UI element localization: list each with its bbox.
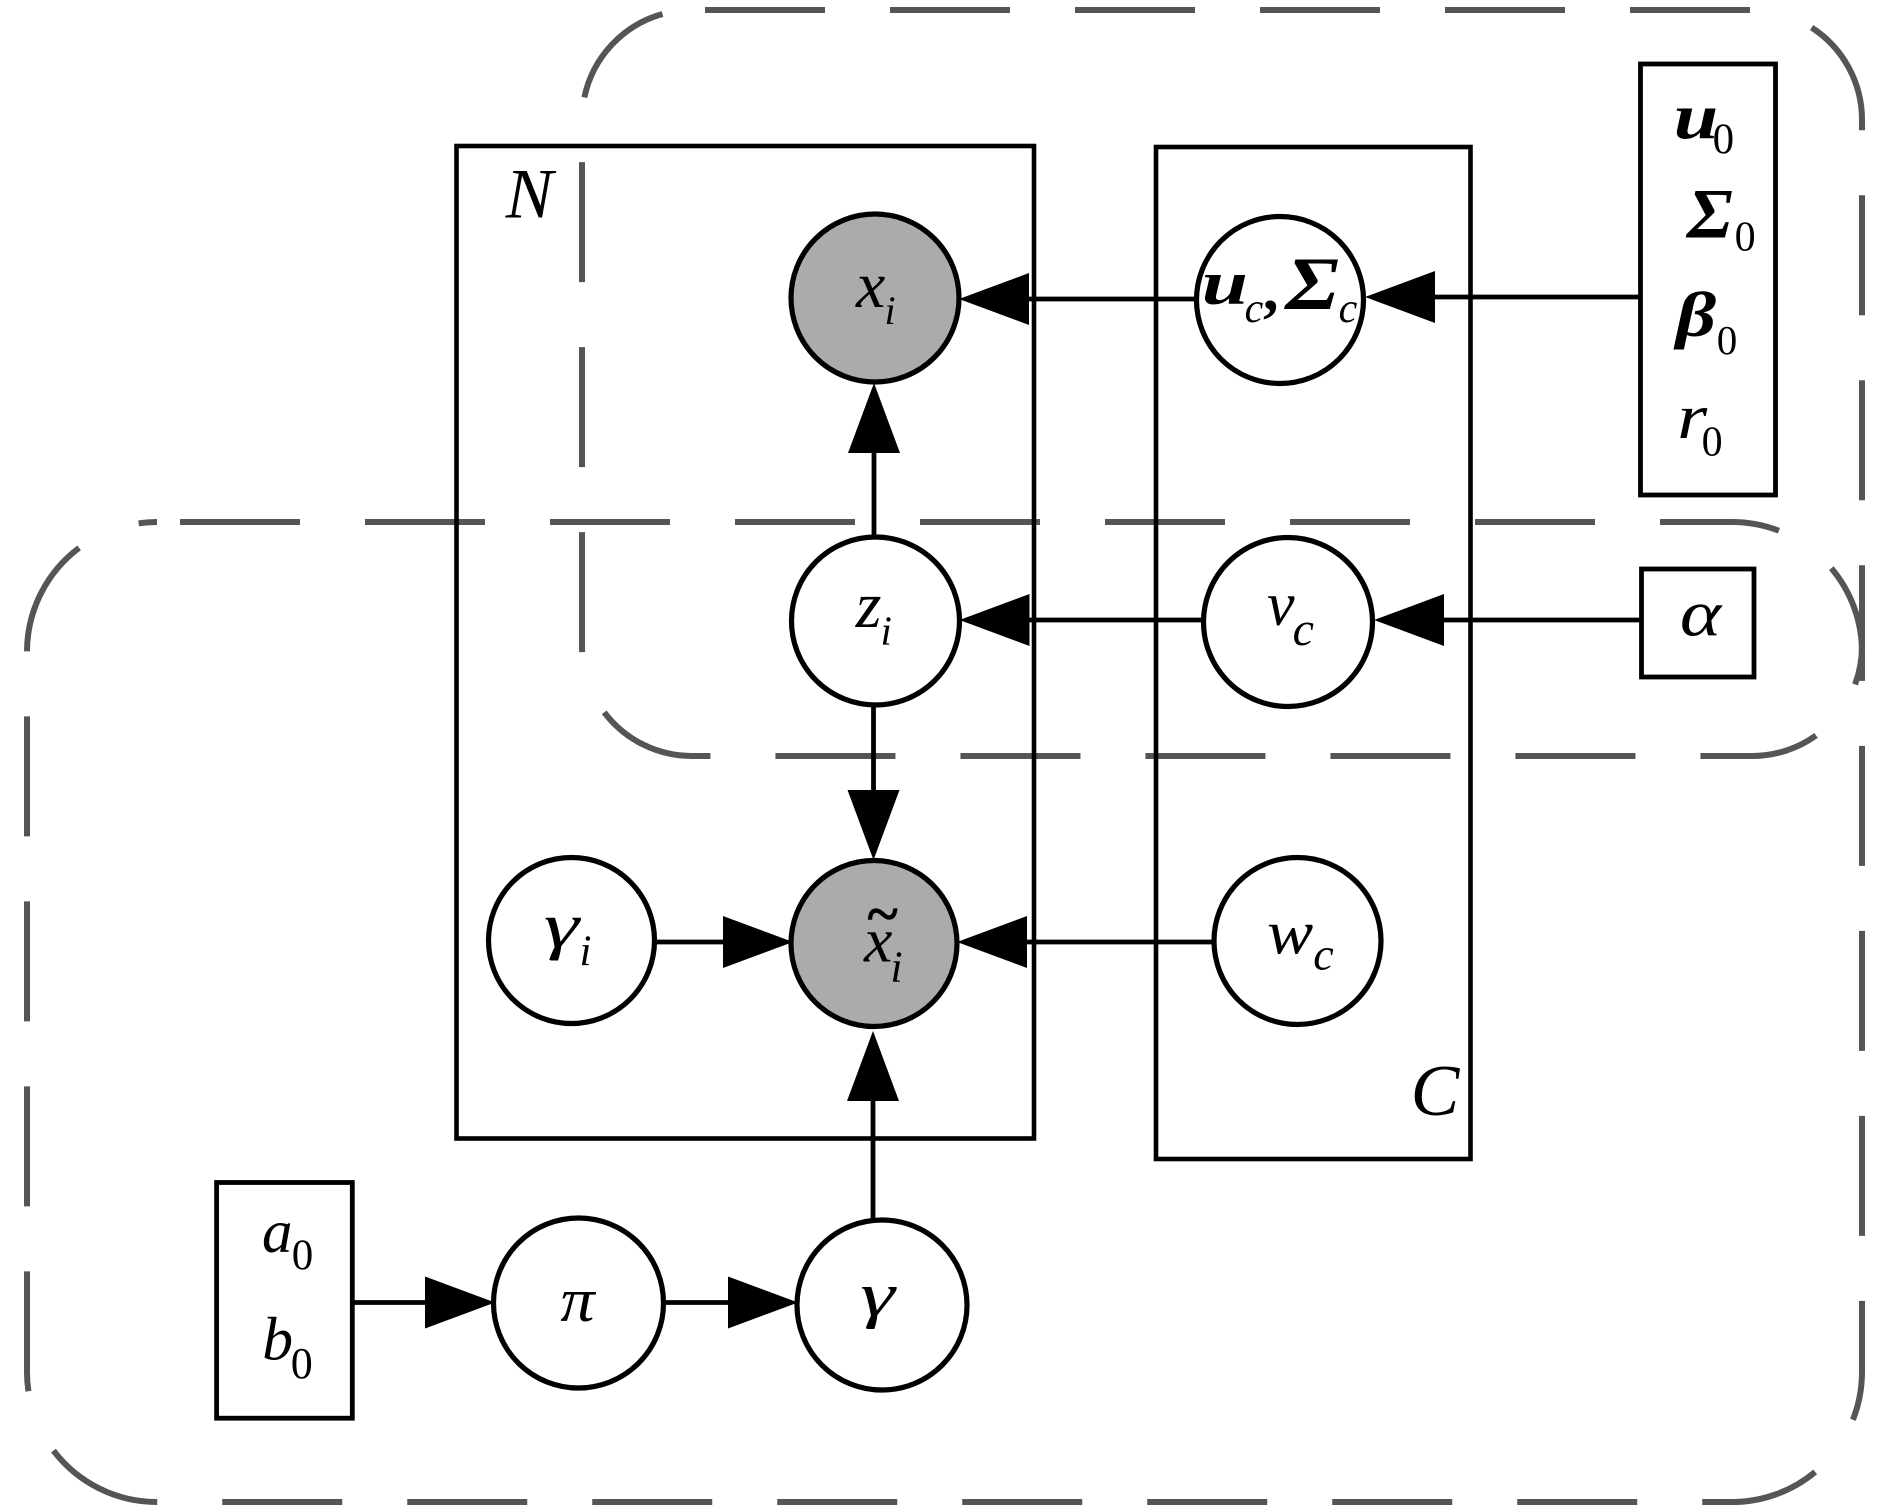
svg-text:β: β: [1673, 279, 1717, 350]
svg-text:u: u: [1202, 249, 1248, 318]
svg-text:0: 0: [1735, 215, 1756, 261]
svg-text:0: 0: [1713, 116, 1735, 163]
svg-text:z: z: [855, 569, 882, 642]
svg-text:0: 0: [291, 1339, 313, 1388]
svg-text:b: b: [262, 1305, 293, 1373]
svg-text:w: w: [1267, 898, 1313, 967]
svg-text:N: N: [505, 156, 557, 234]
svg-text:x: x: [863, 905, 892, 976]
svg-text:u: u: [1674, 80, 1718, 152]
svg-text:x: x: [855, 249, 885, 322]
svg-text:C: C: [1411, 1050, 1461, 1131]
svg-text:c: c: [1293, 603, 1314, 656]
svg-text:a: a: [262, 1199, 293, 1266]
svg-text:i: i: [580, 928, 592, 975]
svg-text:π: π: [560, 1267, 597, 1335]
svg-text:i: i: [881, 608, 892, 654]
svg-text:Σ: Σ: [1685, 174, 1733, 253]
svg-text:α: α: [1680, 576, 1723, 650]
svg-text:0: 0: [1717, 317, 1738, 363]
svg-text:γ: γ: [544, 890, 582, 961]
svg-text:i: i: [890, 942, 902, 991]
svg-text:0: 0: [1702, 419, 1723, 465]
svg-text:,: ,: [1263, 256, 1279, 324]
svg-text:Σ: Σ: [1283, 243, 1339, 326]
svg-text:v: v: [1267, 571, 1295, 639]
svg-text:i: i: [885, 288, 896, 333]
svg-text:c: c: [1245, 286, 1264, 332]
svg-text:γ: γ: [860, 1261, 897, 1330]
svg-text:c: c: [1339, 286, 1358, 332]
svg-text:c: c: [1313, 929, 1333, 980]
svg-text:0: 0: [292, 1232, 314, 1279]
